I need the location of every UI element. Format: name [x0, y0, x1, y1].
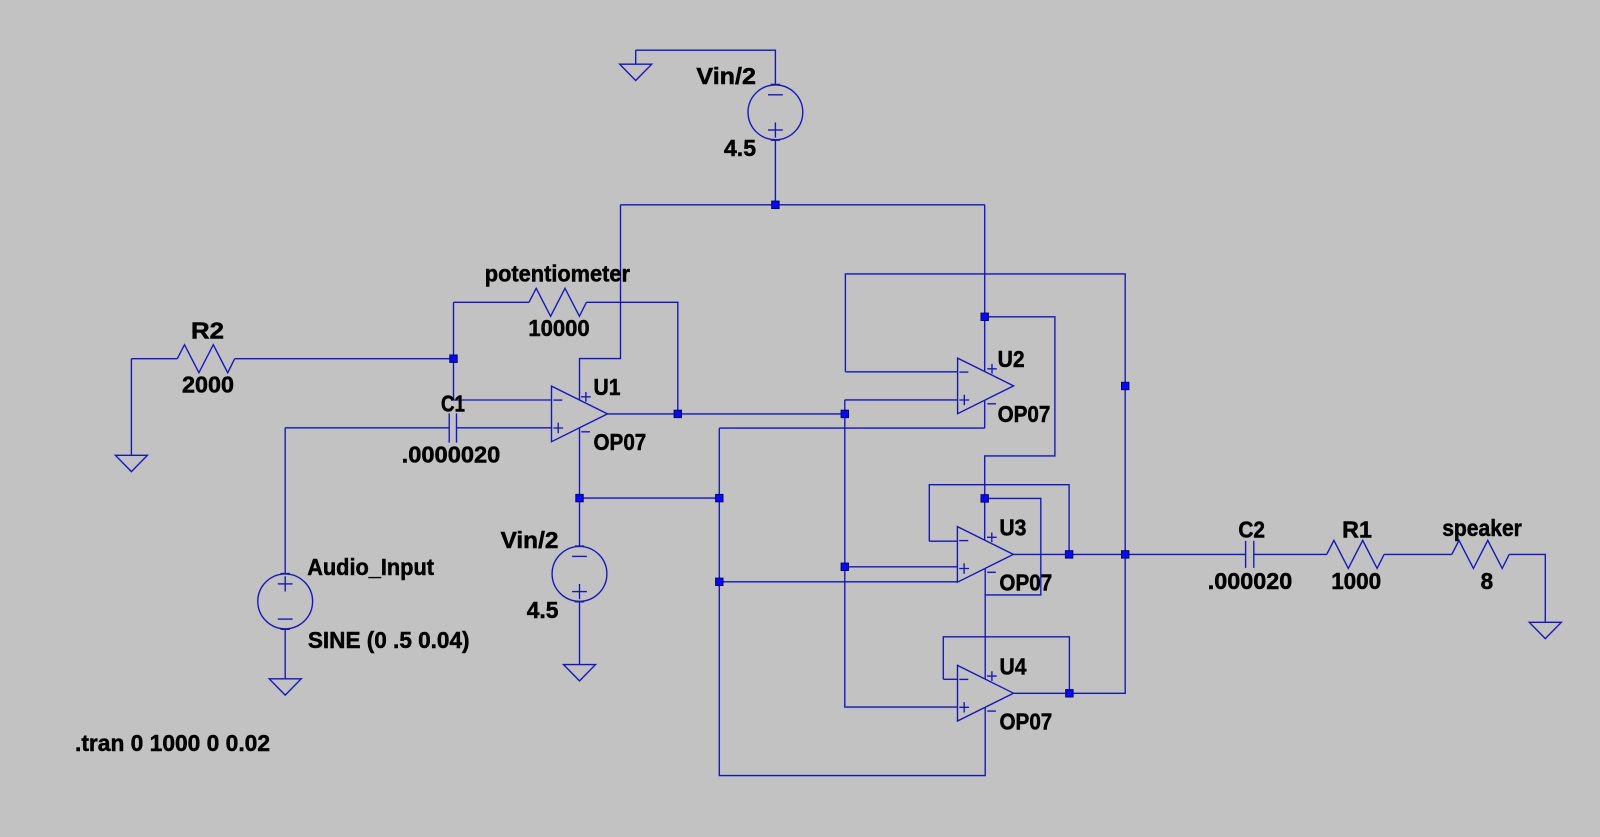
svg-text:speaker: speaker — [1442, 515, 1522, 541]
svg-text:R2: R2 — [191, 317, 224, 343]
svg-text:OP07: OP07 — [1000, 709, 1053, 735]
svg-text:.tran 0 1000 0 0.02: .tran 0 1000 0 0.02 — [75, 730, 270, 756]
svg-text:U1: U1 — [594, 374, 621, 400]
svg-text:.000020: .000020 — [1208, 568, 1292, 594]
svg-text:U3: U3 — [999, 515, 1026, 541]
svg-text:OP07: OP07 — [999, 570, 1052, 596]
svg-text:C2: C2 — [1238, 516, 1265, 542]
svg-text:4.5: 4.5 — [724, 135, 756, 161]
svg-text:1000: 1000 — [1331, 568, 1381, 594]
svg-text:potentiometer: potentiometer — [485, 260, 630, 286]
svg-text:Vin/2: Vin/2 — [696, 63, 756, 89]
svg-text:OP07: OP07 — [998, 401, 1051, 427]
svg-text:SINE (0 .5 0.04): SINE (0 .5 0.04) — [308, 627, 470, 653]
svg-text:C1: C1 — [441, 390, 465, 416]
svg-text:10000: 10000 — [528, 315, 589, 341]
svg-text:Audio_Input: Audio_Input — [307, 554, 434, 580]
svg-text:Vin/2: Vin/2 — [501, 527, 559, 553]
svg-text:.0000020: .0000020 — [402, 442, 501, 468]
svg-text:OP07: OP07 — [594, 429, 647, 455]
svg-text:2000: 2000 — [182, 371, 234, 397]
svg-text:U4: U4 — [1000, 653, 1027, 679]
svg-text:4.5: 4.5 — [527, 597, 559, 623]
svg-text:U2: U2 — [998, 346, 1025, 372]
svg-text:8: 8 — [1481, 568, 1494, 594]
svg-text:R1: R1 — [1342, 517, 1372, 543]
